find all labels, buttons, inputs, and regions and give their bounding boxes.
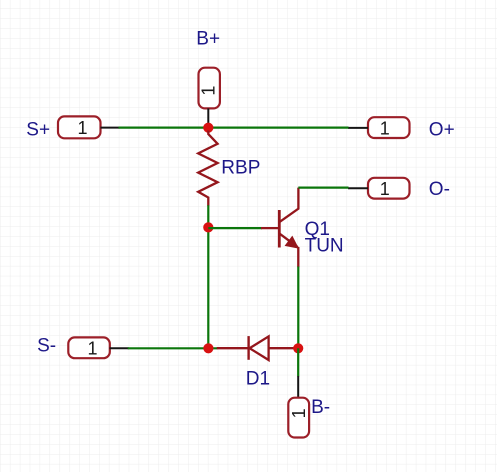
wire resistor bottom to S- net vertical [207,205,209,348]
connector S+ [58,116,101,138]
emitter lead of Q1 [297,247,299,267]
svg-text:1: 1 [77,118,87,138]
wire emitter to B-/D1 node [297,267,299,349]
pin 1 of O+ connector [348,127,368,129]
svg-text:B-: B- [311,397,330,418]
connector B+ [199,68,220,109]
base bar of Q1 [278,210,281,248]
junction at emitter column / D1 cathode [293,343,303,353]
junction at resistor bottom / base node [203,222,213,232]
pin 1 of S- connector [110,347,129,349]
svg-text:RBP: RBP [221,157,260,178]
connector O- [368,178,410,199]
svg-text:1: 1 [87,339,97,359]
diode D1 [217,336,298,360]
resistor RBP [198,131,217,206]
pin 1 of S+ connector [101,127,120,129]
wire D1 node to B- [297,348,299,376]
svg-text:S-: S- [37,335,56,356]
base pin of Q1 [261,227,279,229]
svg-text:1: 1 [380,118,390,138]
cathode lead of D1 [269,347,299,349]
wire S- to D1 node [128,347,218,349]
svg-text:1: 1 [199,86,219,96]
svg-text:D1: D1 [246,368,270,389]
svg-text:O-: O- [429,179,450,200]
svg-text:1: 1 [289,408,309,418]
collector of Q1 [280,188,299,222]
wire net S+/B+/O+ horizontal [119,126,349,128]
wire collector to O- [298,187,348,189]
pin 1 of O- connector [348,187,368,189]
junction at S- net / resistor column [203,343,213,353]
svg-text:S+: S+ [26,119,50,140]
cathode bar of D1 [247,336,249,360]
connector B- [288,398,309,438]
triangle of D1 [250,336,269,360]
svg-text:B+: B+ [196,28,220,49]
junction at B+ column on S+/O+ wire [203,123,213,133]
svg-text:1: 1 [380,179,390,199]
connector O+ [368,117,410,138]
wire base node to transistor base [208,227,262,229]
connector S- [68,337,110,358]
emitter arrow of Q1 [286,237,298,248]
svg-text:TUN: TUN [305,236,344,257]
pin 1 of B- connector [297,376,299,398]
transistor Q1 [261,188,298,268]
anode lead of D1 [217,347,249,349]
emitter of Q1 [280,234,298,247]
svg-text:O+: O+ [429,119,455,140]
pin 1 of B+ connector [207,108,209,127]
